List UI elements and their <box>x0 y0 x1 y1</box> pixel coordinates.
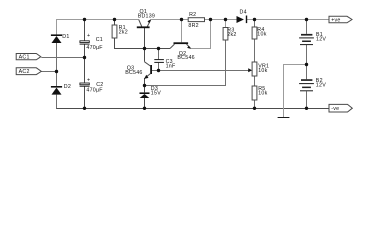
node: top rail junction R3 <box>224 18 227 21</box>
svg-text:12V: 12V <box>316 37 326 43</box>
capacitor C2 470uF <box>80 78 104 94</box>
wire top rail segment 3 (R2 to D4) <box>205 19 237 21</box>
svg-text:10k: 10k <box>258 68 267 74</box>
zener diode D3 15V <box>140 86 162 98</box>
diode D2 <box>51 84 71 95</box>
wire C2 bottom to rail <box>84 86 86 109</box>
svg-text:AC2: AC2 <box>19 69 30 75</box>
wire C3 bottom lead <box>158 63 160 71</box>
wire R3 bottom to node C <box>145 40 226 86</box>
diode D4 <box>237 9 248 23</box>
wire B1 bottom to mid node <box>306 45 308 79</box>
wire R4 top lead <box>254 20 256 28</box>
node C junction Q3 emitter / D3 / R3 <box>143 84 146 87</box>
wire top rail segment 2 (Q1 emitter to R2) <box>151 19 188 21</box>
wire R4 to VR1 <box>254 39 256 62</box>
wire VR1 to R5 <box>254 76 256 86</box>
svg-text:8R2: 8R2 <box>188 23 198 29</box>
connector +ve <box>329 16 352 23</box>
node: top rail junction Q2 emitter <box>209 18 212 21</box>
wire D3 anode to bottom rail <box>144 98 146 109</box>
resistor R2 8R2 <box>188 12 204 29</box>
node: bottom rail junction R5 <box>253 107 256 110</box>
wire AC2 to diode column <box>41 71 56 73</box>
node A junction C3 top <box>157 47 160 50</box>
transistor Q3 BC546 <box>125 62 152 79</box>
wire top rail segment 4 (D4 to +ve) <box>247 19 329 21</box>
node: top rail junction Q2 base <box>180 18 183 21</box>
svg-text:D2: D2 <box>64 84 71 90</box>
wire D2 anode to bottom rail <box>56 95 58 109</box>
svg-text:BC546: BC546 <box>125 70 142 76</box>
resistor R4 10k <box>252 27 267 39</box>
connector -ve <box>329 104 352 112</box>
wire Q3 emitter to D3 <box>144 78 146 92</box>
wire R1 top lead <box>114 20 116 26</box>
svg-text:+ve: +ve <box>331 18 340 24</box>
svg-text:12V: 12V <box>316 82 326 88</box>
wire battery midpoint to ground <box>284 65 307 118</box>
node: battery midpoint <box>305 63 308 66</box>
connector AC2 <box>16 68 41 75</box>
ground <box>278 117 290 119</box>
node: bottom rail junction C2 <box>83 107 86 110</box>
svg-text:BD139: BD139 <box>138 13 155 19</box>
connector AC1 <box>16 54 41 61</box>
resistor R1 2k2 <box>112 25 128 38</box>
battery B1 12V <box>299 32 326 45</box>
svg-text:10k: 10k <box>258 91 267 97</box>
wire R3 top lead <box>225 20 227 28</box>
wire Q2 emitter to rail <box>191 20 211 49</box>
svg-text:470µF: 470µF <box>86 45 103 51</box>
node: bottom rail junction B2 <box>305 107 308 110</box>
svg-text:2k2: 2k2 <box>227 32 236 38</box>
diode D1 <box>51 34 70 43</box>
wire R1 bottom to node A <box>115 38 171 49</box>
resistor R3 2k2 <box>223 28 236 41</box>
wire C1 bottom to C2 top <box>84 44 86 83</box>
wire B2 bottom lead <box>306 91 308 109</box>
wire B1 top lead <box>306 20 308 34</box>
wire Q2 base lead <box>181 20 183 43</box>
transistor Q1 BD139 <box>137 9 155 28</box>
wire top rail segment 1 <box>57 20 139 35</box>
svg-text:15V: 15V <box>151 91 161 97</box>
wire bottom rail <box>57 108 330 110</box>
wire C3 top lead <box>158 49 160 60</box>
capacitor C3 1nF <box>154 59 176 70</box>
node: top rail junction R1 <box>113 18 116 21</box>
wire AC1 to C1/C2 junction <box>41 57 84 59</box>
svg-text:C1: C1 <box>96 37 103 43</box>
wire C1 column <box>84 20 86 41</box>
svg-text:-ve: -ve <box>331 106 339 112</box>
svg-text:D4: D4 <box>240 9 247 15</box>
capacitor C1 470uF <box>80 33 104 51</box>
node: top rail junction C1 <box>83 18 86 21</box>
battery B2 12V <box>299 78 326 91</box>
svg-text:R2: R2 <box>189 12 196 18</box>
transistor Q2 BC546 <box>170 42 195 61</box>
resistor R5 10k <box>252 86 267 100</box>
wire node B (Q3 base to VR1 wiper) <box>152 70 249 72</box>
node B junction C3 bottom / Q3 base <box>157 69 160 72</box>
svg-text:BC546: BC546 <box>177 55 194 61</box>
potentiometer VR1 10k <box>248 62 269 76</box>
wire R5 bottom lead <box>254 100 256 109</box>
svg-text:D1: D1 <box>62 34 69 40</box>
svg-text:470µF: 470µF <box>86 88 103 94</box>
node A junction Q1 base / Q3 collector <box>143 47 146 50</box>
node: bottom rail junction D3 <box>143 107 146 110</box>
node: AC1 / C1 / C2 junction <box>83 56 86 59</box>
svg-text:1nF: 1nF <box>166 64 176 70</box>
node: AC2 / D1 / D2 junction <box>55 70 58 73</box>
wire Q1 base / Q3 collector column <box>144 28 146 62</box>
svg-text:AC1: AC1 <box>19 55 30 61</box>
svg-text:10k: 10k <box>257 32 266 38</box>
wire D1-D2 column <box>56 43 58 86</box>
node: top rail junction B1 <box>305 18 308 21</box>
node: top rail junction R4 <box>253 18 256 21</box>
svg-text:2k2: 2k2 <box>119 30 128 36</box>
svg-text:+: + <box>87 33 90 39</box>
